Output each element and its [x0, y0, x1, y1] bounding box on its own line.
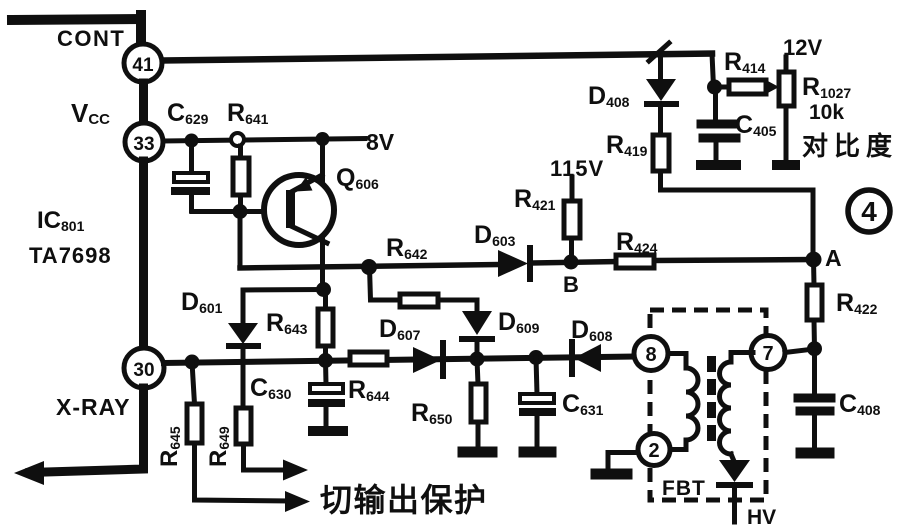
- wire emitter node to D601: [243, 290, 324, 324]
- capacitor C630: [310, 361, 343, 428]
- FBT core: [707, 356, 716, 446]
- resistor R644: [350, 352, 387, 365]
- svg-text:10k: 10k: [809, 101, 844, 124]
- svg-text:115V: 115V: [550, 156, 604, 181]
- junction C408 node: [807, 341, 822, 356]
- pin 41: [124, 44, 162, 82]
- svg-text:8V: 8V: [366, 129, 395, 155]
- resistor R650: [471, 359, 486, 447]
- resistor R419: [653, 107, 669, 190]
- resistor R642 body: [400, 294, 438, 307]
- wire 8V rail: [163, 139, 365, 142]
- pin 30: [124, 348, 164, 388]
- junction R643 C630 node: [318, 353, 333, 368]
- junction R650 node: [470, 352, 485, 367]
- capacitor C405: [701, 87, 736, 160]
- ground C631: [524, 447, 551, 458]
- svg-text:HV: HV: [747, 506, 776, 528]
- svg-text:4: 4: [861, 196, 877, 227]
- wire corner down to R414 node: [712, 54, 714, 88]
- diode D408: [646, 52, 676, 104]
- svg-text:TA7698: TA7698: [29, 243, 112, 268]
- junction node B: [564, 255, 579, 270]
- diode D609: [462, 311, 492, 359]
- resistor R645: [187, 362, 290, 501]
- pin 7: [751, 336, 785, 370]
- capacitor C408: [798, 349, 831, 448]
- capacitor C629: [174, 144, 208, 211]
- wire base node down: [238, 212, 243, 269]
- ground C405: [701, 160, 736, 170]
- ground C630: [313, 426, 343, 436]
- diode D603: [498, 248, 530, 279]
- wire base node horizontal: [192, 209, 286, 214]
- pin 33: [125, 123, 163, 161]
- node R641 top ring: [231, 133, 244, 146]
- ground R1027: [777, 160, 795, 170]
- wire jump slash: [649, 43, 669, 61]
- pin 2: [638, 434, 670, 466]
- arrow protection left: [14, 461, 44, 485]
- wire pin33 to pin30: [139, 161, 148, 348]
- ground R650: [463, 447, 492, 458]
- svg-text:CONT: CONT: [57, 26, 125, 51]
- svg-text:切输出保护: 切输出保护: [320, 482, 488, 518]
- wire R642 node down and across: [370, 267, 478, 312]
- svg-text:2: 2: [648, 440, 659, 462]
- resistor R424: [616, 255, 654, 268]
- FBT secondary winding: [720, 353, 754, 461]
- wire pin41 to top-right: [163, 54, 712, 61]
- svg-text:41: 41: [132, 55, 154, 76]
- junction emitter node: [316, 282, 331, 297]
- wire pin2 ground lead: [608, 453, 638, 469]
- junction node A: [806, 252, 822, 268]
- diode D608: [572, 342, 601, 374]
- junction R414 node: [707, 80, 722, 95]
- svg-text:30: 30: [133, 360, 154, 381]
- wire top-left thick bus: [12, 15, 141, 45]
- page marker 4: [848, 190, 890, 232]
- junction R642 node: [361, 259, 377, 275]
- junction C631 node: [529, 350, 544, 365]
- arrow R649 out: [283, 460, 308, 481]
- FBT dashed box: [650, 310, 766, 500]
- FBT primary winding: [668, 354, 698, 450]
- junction collector 8V: [316, 132, 330, 146]
- resistor R414 with arrow: [715, 79, 780, 95]
- svg-text:33: 33: [133, 134, 154, 155]
- potentiometer R1027: [779, 57, 794, 160]
- svg-text:7: 7: [762, 343, 773, 365]
- junction R645 node: [185, 355, 200, 370]
- diode D601: [228, 323, 258, 404]
- svg-text:12V: 12V: [783, 35, 822, 60]
- diode D607: [413, 343, 443, 376]
- ground C408: [801, 448, 829, 459]
- wire pin7 to R422 column: [785, 349, 814, 353]
- svg-text:8: 8: [645, 344, 656, 366]
- svg-text:FBT: FBT: [662, 477, 706, 500]
- junction base node: [233, 204, 248, 219]
- ground pin2: [596, 469, 627, 480]
- wire pin30 down to arrow: [30, 388, 144, 473]
- wire R642 row: [240, 265, 497, 269]
- wire R419 to A column: [661, 190, 814, 260]
- resistor R641: [233, 146, 249, 211]
- svg-text:X-RAY: X-RAY: [56, 394, 130, 420]
- resistor R421: [564, 177, 580, 262]
- svg-text:A: A: [825, 245, 842, 271]
- resistor R422: [807, 260, 822, 349]
- pin 8: [634, 337, 668, 371]
- resistor R643: [318, 290, 333, 362]
- svg-text:对比度: 对比度: [802, 131, 898, 161]
- junction C629 top: [185, 134, 199, 148]
- wire pin41 to pin33: [139, 83, 148, 124]
- arrow R645 out: [285, 491, 310, 512]
- resistor R649: [236, 408, 287, 470]
- capacitor C631: [520, 358, 554, 448]
- wire D603 to B to R424 to A: [533, 262, 616, 264]
- diode HV: [719, 460, 750, 522]
- svg-text:B: B: [563, 272, 579, 297]
- wire X-RAY main row: [164, 357, 635, 364]
- transistor Q606: [264, 139, 334, 290]
